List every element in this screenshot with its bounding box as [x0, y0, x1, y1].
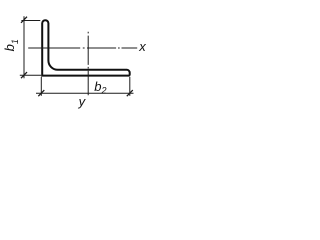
x axis centerline — [28, 47, 137, 49]
dimension b2 extension line right — [129, 77, 131, 96]
dimension b2 tick left — [38, 90, 44, 96]
dimension b2 line — [36, 92, 134, 94]
svg-text:b1: b1 — [2, 39, 20, 51]
dimension b2 extension line left — [40, 77, 42, 96]
dimension b1 extension line top — [21, 20, 40, 22]
y axis centerline — [87, 32, 89, 95]
dimension b1 tick bottom — [21, 72, 27, 78]
angle profile outline — [42, 20, 130, 75]
svg-text:x: x — [138, 39, 146, 54]
dimension b1 extension line bottom — [20, 74, 41, 76]
svg-text:y: y — [78, 94, 87, 109]
dimension b1 line — [23, 16, 25, 78]
svg-text:b2: b2 — [94, 79, 106, 96]
dimension b1 tick top — [21, 17, 27, 23]
dimension b2 tick right — [127, 90, 133, 96]
